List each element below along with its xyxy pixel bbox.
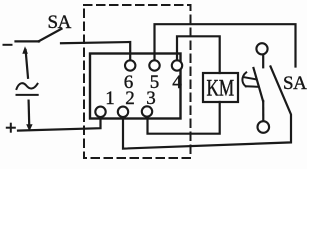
svg-text:1: 1 (105, 88, 115, 109)
svg-text:SA: SA (48, 12, 72, 33)
svg-text:3: 3 (146, 88, 156, 109)
svg-text:2: 2 (125, 88, 135, 109)
svg-text:KM: KM (207, 76, 235, 101)
svg-text:4: 4 (172, 72, 182, 93)
svg-text:SA: SA (283, 73, 307, 94)
